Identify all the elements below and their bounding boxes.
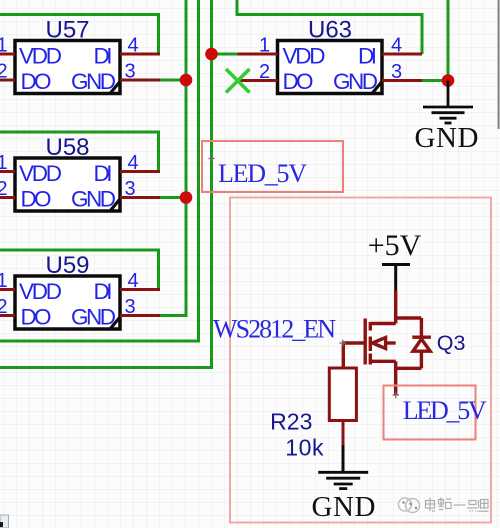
svg-text:DO: DO: [21, 187, 52, 212]
pin U63.2: [238, 61, 278, 83]
svg-text:2: 2: [259, 61, 270, 83]
svg-text:3: 3: [124, 178, 135, 200]
pin U57.3: [120, 60, 160, 82]
svg-text:DI: DI: [358, 44, 377, 69]
window edge (right): [498, 0, 500, 129]
svg-text:1: 1: [0, 152, 8, 174]
svg-text:10k: 10k: [285, 435, 324, 461]
svg-text:DO: DO: [283, 69, 314, 94]
ground GND (bottom): [318, 472, 368, 488]
wire net U57.DI loop: [0, 15, 159, 55]
net label box LED_5V (lower): [384, 386, 487, 440]
svg-text:2: 2: [0, 296, 8, 318]
wire net U58.DI loop: [0, 132, 159, 172]
junction U63.3 / GND: [442, 74, 455, 87]
wire vertical bus line A: [160, 0, 186, 316]
svg-text:DI: DI: [94, 161, 113, 186]
wire net U59.DI loop: [0, 250, 159, 290]
UI artifact box (bottom left): [0, 515, 9, 528]
svg-text:U57: U57: [45, 17, 89, 44]
wire R23 to GND: [342, 421, 345, 446]
svg-text:VDD: VDD: [19, 44, 62, 69]
svg-text:DO: DO: [21, 305, 52, 330]
svg-text:R23: R23: [270, 409, 312, 435]
svg-text:2: 2: [0, 60, 8, 82]
junction U57.3 / bus A: [180, 74, 193, 87]
wire +5V to Q3 drain: [394, 291, 397, 324]
pin U58.1: [0, 152, 15, 174]
svg-text:4: 4: [391, 34, 402, 56]
svg-text:1: 1: [0, 270, 8, 292]
pin U58.4: [120, 152, 160, 174]
svg-text:VDD: VDD: [19, 279, 62, 304]
svg-text:3: 3: [391, 61, 402, 83]
wire vertical bus line B: [0, 0, 199, 341]
svg-text:DI: DI: [94, 44, 113, 69]
pin U57.2: [0, 60, 15, 82]
junction U58.3 / bus A: [180, 191, 193, 204]
pin U59.4: [120, 270, 160, 292]
svg-text:GND: GND: [71, 187, 116, 212]
svg-text:3: 3: [124, 296, 135, 318]
svg-text:2: 2: [0, 178, 8, 200]
svg-text:GND: GND: [312, 491, 376, 523]
pin U58.3: [120, 178, 160, 200]
IC U58: [15, 134, 120, 212]
svg-text:+5V: +5V: [368, 229, 422, 262]
node cross at gate wire end: [340, 340, 347, 346]
IC U63: [278, 17, 383, 95]
power +5V: [368, 229, 422, 291]
svg-text:LED_5V: LED_5V: [218, 159, 307, 188]
IC U59: [15, 252, 120, 330]
ground GND (top right): [423, 81, 473, 124]
svg-text:DO: DO: [21, 69, 52, 94]
IC U57: [15, 17, 120, 95]
wire U58 pin3 green segment: [160, 196, 186, 199]
junction bus C / U63.1: [205, 48, 218, 61]
watermark logo circles: [399, 498, 420, 513]
transistor Q3 (P-MOSFET): [365, 318, 421, 395]
svg-text:U63: U63: [308, 17, 352, 44]
svg-text:VDD: VDD: [19, 161, 62, 186]
pin U58.2: [0, 178, 15, 200]
svg-text:4: 4: [127, 152, 138, 174]
pin U59.2: [0, 296, 15, 318]
svg-text:U58: U58: [45, 134, 89, 161]
pin U59.3: [120, 296, 160, 318]
node cross at Q3 source wire end: [393, 392, 399, 398]
wire U57 pin3 green segment: [160, 79, 186, 82]
svg-text:U59: U59: [45, 252, 89, 279]
svg-text:1: 1: [0, 34, 8, 56]
net label box LED_5V (upper): [202, 141, 343, 192]
svg-text:4: 4: [127, 34, 138, 56]
pin U57.1: [0, 34, 15, 56]
svg-text:DI: DI: [94, 279, 113, 304]
wire U63 DI top loop: [237, 0, 422, 54]
resistor R23: [329, 368, 356, 421]
wire gate net: [342, 343, 365, 368]
svg-text:VDD: VDD: [283, 44, 326, 69]
svg-text:4: 4: [127, 270, 138, 292]
pin U63.4: [382, 34, 422, 56]
svg-text:WS2812_EN: WS2812_EN: [213, 314, 336, 343]
no-connect X on U63.DO: [226, 69, 250, 93]
svg-text:1: 1: [259, 34, 270, 56]
pin U59.1: [0, 270, 15, 292]
svg-text:GND: GND: [333, 69, 378, 94]
node cross on bus C at LED_5V label: [209, 156, 215, 162]
pin U63.1: [238, 34, 278, 56]
wire vertical bus line C (LED_5V): [0, 0, 212, 368]
svg-text:GND: GND: [71, 305, 116, 330]
svg-text:LED_5V: LED_5V: [403, 396, 487, 425]
region box (pink outline): [230, 198, 491, 523]
svg-text:3: 3: [124, 60, 135, 82]
wire U63 pin1 green segment: [212, 53, 238, 56]
pin U57.4: [120, 34, 160, 56]
svg-text:GND: GND: [71, 69, 116, 94]
svg-text:GND: GND: [415, 122, 479, 154]
watermark text 电路一点通 (drawn strokes): [426, 498, 489, 512]
svg-text:Q3: Q3: [437, 331, 466, 355]
pin U63.3: [382, 61, 422, 83]
wire U63 pin3 to GND: [422, 0, 448, 81]
diode D (body) of Q3: [412, 318, 431, 368]
